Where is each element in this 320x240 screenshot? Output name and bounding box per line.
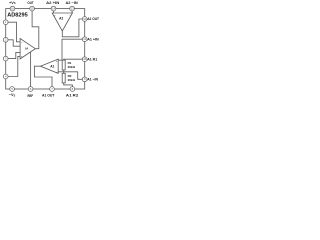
wire pin13 stub to A2 -in xyxy=(71,11,73,13)
svg-text:IA: IA xyxy=(25,47,29,51)
wire R2 bottom to pin 8 xyxy=(64,83,73,87)
svg-text:13: 13 xyxy=(71,7,74,11)
pin 16 xyxy=(10,6,15,11)
wire pin2 RG to IA xyxy=(8,40,20,46)
op-amp A1 xyxy=(40,59,58,73)
chip outline xyxy=(6,9,85,89)
wire IA ref to REF pin 6 xyxy=(30,52,32,87)
pin 11 xyxy=(82,37,87,42)
polarity marks xyxy=(21,14,71,74)
svg-text:A1: A1 xyxy=(50,65,54,69)
svg-text:−: − xyxy=(21,41,23,44)
svg-text:A1 OUT: A1 OUT xyxy=(42,93,55,98)
wire A2 output to pin 12 xyxy=(62,19,82,37)
svg-text:16: 16 xyxy=(11,7,14,11)
wire junction to pin 9 xyxy=(64,72,83,80)
svg-text:OUT: OUT xyxy=(27,0,34,5)
in-amp IA xyxy=(20,39,35,59)
svg-text:AD8295: AD8295 xyxy=(7,13,28,19)
pin 2 xyxy=(3,37,8,42)
pin 7 xyxy=(50,87,55,92)
pin circles xyxy=(3,6,87,91)
svg-text:A1 −IN: A1 −IN xyxy=(87,77,98,82)
pin 9 xyxy=(82,77,87,82)
wire R1 bottom to junction xyxy=(63,70,65,73)
svg-text:A2 −IN: A2 −IN xyxy=(66,0,78,5)
svg-text:15: 15 xyxy=(31,7,34,11)
wire IA output to OUT pin 15 xyxy=(32,11,39,49)
svg-text:−VS: −VS xyxy=(9,92,16,97)
wire pin4 to IA +IN xyxy=(8,56,20,76)
svg-text:+: + xyxy=(56,60,58,63)
wire pin11 to A1 +in xyxy=(58,39,82,60)
svg-text:10: 10 xyxy=(83,57,86,61)
svg-text:+: + xyxy=(54,14,56,17)
wire pin14 stub to A2 +in xyxy=(53,11,55,13)
wire junction to A1 -in xyxy=(58,71,64,73)
svg-text:A1 R2: A1 R2 xyxy=(66,92,79,97)
pin 15 xyxy=(30,6,35,11)
svg-text:A1 +IN: A1 +IN xyxy=(87,36,99,41)
svg-text:A2 +IN: A2 +IN xyxy=(46,0,59,5)
pin 4 xyxy=(3,74,8,79)
wire pin10 to R1 xyxy=(64,58,83,61)
component labels xyxy=(25,16,75,82)
svg-text:12: 12 xyxy=(83,17,86,21)
wire pin3 RG to IA xyxy=(8,52,20,58)
svg-text:A1 R1: A1 R1 xyxy=(87,56,98,61)
pin 5 xyxy=(10,87,15,92)
svg-text:20kΩ: 20kΩ xyxy=(68,78,76,82)
svg-text:REF: REF xyxy=(28,93,34,98)
pin 8 xyxy=(70,87,75,92)
svg-text:A2 OUT: A2 OUT xyxy=(87,16,99,21)
pin 1 xyxy=(3,20,8,25)
svg-text:+VS: +VS xyxy=(9,0,16,5)
svg-text:11: 11 xyxy=(83,37,86,41)
svg-text:14: 14 xyxy=(52,7,55,11)
pin 13 xyxy=(70,6,75,11)
op-amp A2 xyxy=(52,13,72,31)
pin 12 xyxy=(82,17,87,22)
resistor R1 xyxy=(62,60,65,70)
pin 10 xyxy=(82,57,87,62)
resistor R2 xyxy=(62,73,65,83)
wire A1 output to pin 7 xyxy=(34,66,52,87)
svg-text:A2: A2 xyxy=(59,16,63,20)
pin 6 xyxy=(28,87,33,92)
labels xyxy=(7,0,99,98)
svg-text:20kΩ: 20kΩ xyxy=(68,65,76,69)
pin 14 xyxy=(51,6,56,11)
pin numbers xyxy=(5,7,87,91)
wire pin1 to IA -IN xyxy=(8,22,20,42)
pin 3 xyxy=(3,56,8,61)
